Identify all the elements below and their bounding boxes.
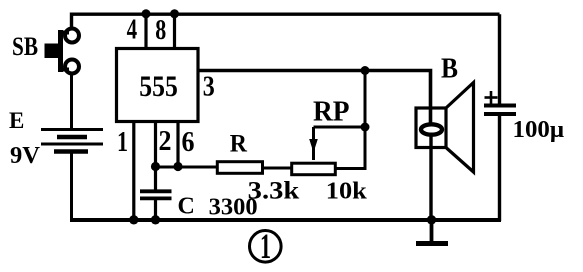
svg-text:3.3k: 3.3k bbox=[248, 177, 300, 204]
svg-text:RP: RP bbox=[313, 97, 350, 128]
junction dot pin 1 bottom bbox=[129, 215, 138, 224]
label RP bbox=[313, 97, 350, 128]
svg-text:10k: 10k bbox=[326, 178, 368, 204]
pin label 1 bbox=[117, 126, 128, 158]
label 9V bbox=[10, 143, 41, 169]
label SB bbox=[12, 32, 38, 61]
wire bottom rail bbox=[70, 218, 501, 222]
junction dot pin 2 node bbox=[151, 162, 160, 171]
junction dot wiper node bbox=[361, 123, 370, 132]
pin label 4 bbox=[127, 14, 138, 46]
value label 100u bbox=[513, 117, 565, 143]
wire R to RP bbox=[263, 167, 291, 170]
pin label 3 bbox=[203, 71, 215, 103]
svg-text:SB: SB bbox=[12, 32, 38, 61]
potentiometer RP body bbox=[292, 163, 336, 175]
wire RP right end up to pin 3 line bbox=[337, 71, 366, 169]
pin 8 wire bbox=[173, 14, 176, 48]
pin 6 wire bbox=[176, 122, 179, 169]
battery E bbox=[41, 130, 103, 152]
svg-text:2: 2 bbox=[159, 125, 172, 157]
wire node 2-6 to resistor R bbox=[156, 166, 217, 169]
wire C to bottom rail bbox=[154, 198, 157, 220]
label C bbox=[178, 193, 195, 219]
resistor R body bbox=[217, 162, 262, 174]
svg-text:R: R bbox=[230, 131, 248, 158]
speaker B coil box bbox=[416, 108, 446, 148]
svg-text:E: E bbox=[9, 108, 24, 133]
junction dot pin3 node bbox=[361, 66, 370, 75]
potentiometer RP wiper arrow bbox=[309, 127, 318, 160]
junction dot speaker bottom bbox=[427, 215, 436, 224]
svg-text:4: 4 bbox=[127, 14, 138, 46]
pin label 2 bbox=[159, 125, 172, 157]
value label 10k bbox=[326, 178, 368, 204]
svg-text:3: 3 bbox=[203, 71, 215, 103]
wire battery to bottom rail bbox=[70, 152, 73, 222]
pin label 8 bbox=[155, 14, 166, 46]
wire top rail V+ bbox=[72, 14, 500, 29]
wire SB to battery bbox=[70, 74, 73, 129]
pin 4 wire bbox=[144, 14, 147, 48]
value label 3300 bbox=[209, 195, 258, 221]
svg-text:555: 555 bbox=[139, 70, 178, 103]
speaker B horn bbox=[447, 83, 474, 173]
value label 3.3k bbox=[248, 177, 300, 204]
svg-text:C: C bbox=[178, 193, 195, 219]
pushbutton SB bbox=[45, 29, 80, 74]
ground bbox=[416, 220, 448, 244]
label E bbox=[9, 108, 24, 133]
pin 3 wire to speaker bbox=[198, 71, 431, 126]
pin 2 wire bbox=[154, 122, 157, 192]
wire right side bbox=[498, 14, 501, 105]
speaker B ellipse bbox=[421, 124, 442, 134]
label R bbox=[230, 131, 248, 158]
figure number circled 1 bbox=[249, 226, 281, 266]
junction dot pin 8 bbox=[170, 9, 179, 18]
wire wiper to vertical bbox=[314, 126, 366, 129]
svg-text:8: 8 bbox=[155, 14, 166, 46]
junction dot pin 6 node bbox=[173, 162, 182, 171]
svg-text:1: 1 bbox=[260, 226, 271, 266]
svg-text:9V: 9V bbox=[10, 143, 41, 169]
svg-text:100μ: 100μ bbox=[513, 117, 565, 143]
op-amp U1 555 timer box bbox=[117, 49, 199, 122]
label B bbox=[441, 53, 458, 84]
capacitor C2 100u plus sign bbox=[485, 91, 498, 104]
capacitor C plates bbox=[140, 191, 172, 198]
junction dot pin 4 bbox=[142, 9, 151, 18]
junction dot C bottom bbox=[151, 215, 160, 224]
pin label 6 bbox=[182, 126, 195, 158]
svg-text:6: 6 bbox=[182, 126, 195, 158]
wire right side lower bbox=[498, 113, 501, 221]
svg-text:B: B bbox=[441, 53, 458, 84]
pin 1 wire bbox=[132, 122, 135, 221]
wire speaker to bottom rail bbox=[429, 133, 432, 220]
svg-text:1: 1 bbox=[117, 126, 128, 158]
capacitor C2 100u plates bbox=[484, 106, 516, 115]
